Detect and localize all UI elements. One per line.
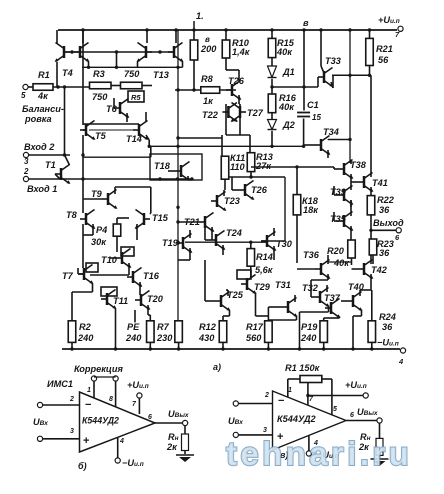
svg-text:Т23: Т23 <box>224 196 240 206</box>
svg-text:Р4: Р4 <box>96 225 107 235</box>
svg-text:Т34: Т34 <box>323 127 339 137</box>
svg-text:Т26: Т26 <box>251 185 268 195</box>
svg-text:Т8: Т8 <box>66 210 78 220</box>
svg-text:Т4: Т4 <box>62 68 73 78</box>
svg-text:200: 200 <box>200 44 217 54</box>
svg-text:R14: R14 <box>256 252 273 262</box>
svg-text:30к: 30к <box>91 237 107 247</box>
svg-text:Т38: Т38 <box>350 160 367 170</box>
svg-text:240: 240 <box>300 333 317 343</box>
svg-text:R1: R1 <box>38 70 50 80</box>
svg-text:27к: 27к <box>255 161 272 171</box>
svg-text:R21: R21 <box>376 44 393 54</box>
svg-text:Т33: Т33 <box>325 56 341 66</box>
svg-text:Т26: Т26 <box>228 76 245 86</box>
svg-text:40к: 40к <box>278 102 295 112</box>
svg-text:40к: 40к <box>333 258 350 268</box>
svg-text:3: 3 <box>263 427 267 434</box>
svg-text:1: 1 <box>288 387 292 394</box>
svg-text:С1: С1 <box>307 100 319 110</box>
svg-text:Вход 2: Вход 2 <box>24 142 55 152</box>
svg-text:8: 8 <box>109 396 113 403</box>
svg-text:2к: 2к <box>166 442 178 452</box>
svg-text:Т36: Т36 <box>303 250 320 260</box>
svg-text:−: − <box>278 395 284 407</box>
svg-text:4: 4 <box>119 438 124 445</box>
svg-text:6: 6 <box>148 414 152 421</box>
svg-text:Вход 1: Вход 1 <box>27 184 57 194</box>
svg-text:240: 240 <box>125 333 142 343</box>
svg-text:2: 2 <box>23 167 29 176</box>
svg-text:1к: 1к <box>203 96 214 106</box>
svg-text:5: 5 <box>333 406 337 413</box>
svg-text:R20: R20 <box>327 246 345 256</box>
svg-text:R22: R22 <box>377 195 395 205</box>
svg-text:Д2: Д2 <box>282 120 296 130</box>
svg-text:3: 3 <box>24 157 29 166</box>
svg-text:230: 230 <box>156 333 173 343</box>
svg-text:240: 240 <box>77 333 94 343</box>
svg-text:R8: R8 <box>201 74 214 84</box>
svg-text:Т7: Т7 <box>62 271 74 281</box>
svg-text:750: 750 <box>92 92 108 102</box>
svg-text:1,4к: 1,4к <box>232 47 251 57</box>
svg-text:а): а) <box>213 362 221 372</box>
svg-text:+: + <box>83 435 89 447</box>
svg-text:Т13: Т13 <box>153 70 169 80</box>
svg-text:430: 430 <box>198 333 215 343</box>
svg-text:в: в <box>205 35 210 44</box>
svg-text:Т25: Т25 <box>227 290 244 300</box>
svg-text:Т9: Т9 <box>91 189 103 199</box>
svg-text:−: − <box>85 399 91 411</box>
svg-text:R24: R24 <box>379 312 396 322</box>
svg-text:3: 3 <box>70 428 74 435</box>
svg-text:56: 56 <box>378 55 389 65</box>
svg-text:5,6к: 5,6к <box>255 265 274 275</box>
svg-text:Р19: Р19 <box>301 322 318 332</box>
svg-text:Т27: Т27 <box>247 108 264 118</box>
svg-text:РЕ: РЕ <box>127 322 140 332</box>
svg-text:Т1: Т1 <box>45 160 56 170</box>
svg-text:560: 560 <box>246 333 262 343</box>
svg-text:ровка: ровка <box>24 114 52 124</box>
svg-text:36: 36 <box>379 205 390 215</box>
svg-text:Т16: Т16 <box>143 271 160 281</box>
svg-text:б): б) <box>78 461 87 471</box>
svg-text:К544УД2: К544УД2 <box>277 414 316 424</box>
svg-text:Т42: Т42 <box>371 265 388 275</box>
svg-text:ИМС1: ИМС1 <box>47 379 73 389</box>
svg-text:4: 4 <box>398 357 404 366</box>
svg-text:40к: 40к <box>276 47 293 57</box>
svg-text:R3: R3 <box>93 69 105 79</box>
svg-text:2: 2 <box>69 396 74 403</box>
svg-text:R5: R5 <box>131 93 141 102</box>
svg-text:Т41: Т41 <box>372 178 388 188</box>
svg-text:Баланси-: Баланси- <box>22 104 64 114</box>
svg-text:Т11: Т11 <box>113 296 128 306</box>
svg-text:Т15: Т15 <box>152 213 169 223</box>
svg-text:Т20: Т20 <box>147 294 164 304</box>
svg-text:1.: 1. <box>196 11 204 21</box>
svg-text:6: 6 <box>350 412 354 419</box>
svg-text:Т14: Т14 <box>126 134 142 144</box>
svg-text:110: 110 <box>230 162 246 172</box>
svg-text:Т29: Т29 <box>254 282 271 292</box>
svg-text:Т10: Т10 <box>101 255 118 265</box>
svg-text:2: 2 <box>264 392 269 399</box>
svg-text:Выход: Выход <box>373 218 404 228</box>
svg-text:Т24: Т24 <box>226 228 242 238</box>
svg-text:в: в <box>303 18 309 28</box>
svg-text:Т35: Т35 <box>330 214 347 224</box>
svg-text:Т5: Т5 <box>95 131 107 141</box>
svg-text:Т18: Т18 <box>154 161 171 171</box>
svg-text:36: 36 <box>379 248 390 258</box>
svg-text:R12: R12 <box>199 322 217 332</box>
svg-text:Коррекция: Коррекция <box>74 364 123 374</box>
svg-text:1: 1 <box>87 387 91 394</box>
svg-text:15: 15 <box>312 113 321 122</box>
svg-text:Т19: Т19 <box>162 238 179 248</box>
svg-text:Д1: Д1 <box>282 67 295 77</box>
svg-text:tehnari.ru: tehnari.ru <box>226 435 412 472</box>
svg-text:Т31: Т31 <box>275 280 291 290</box>
svg-text:R17: R17 <box>246 322 264 332</box>
svg-text:R7: R7 <box>157 322 170 332</box>
svg-text:К544УД2: К544УД2 <box>82 416 119 426</box>
svg-text:Т6: Т6 <box>106 104 118 114</box>
svg-text:36: 36 <box>382 322 393 332</box>
svg-text:R1 150к: R1 150к <box>285 363 321 373</box>
svg-text:Т37: Т37 <box>324 293 341 303</box>
svg-text:Т39: Т39 <box>330 187 347 197</box>
svg-text:5: 5 <box>21 91 26 100</box>
svg-text:750: 750 <box>124 69 140 79</box>
svg-text:18к: 18к <box>303 205 319 215</box>
svg-text:Т22: Т22 <box>202 110 219 120</box>
svg-text:4к: 4к <box>37 91 49 101</box>
svg-text:R2: R2 <box>79 322 92 332</box>
